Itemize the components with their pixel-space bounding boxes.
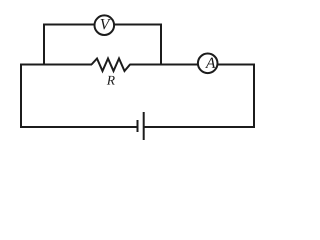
voltmeter U1 body bbox=[95, 15, 115, 35]
battery long plate bbox=[143, 112, 145, 140]
wire left side bbox=[20, 64, 22, 129]
ammeter label A bbox=[205, 58, 215, 68]
voltmeter label V bbox=[101, 19, 111, 29]
battery short plate bbox=[137, 120, 139, 132]
wire bottom-right segment bbox=[144, 126, 255, 128]
wire bottom-left segment bbox=[20, 126, 138, 128]
ammeter U2 body bbox=[198, 54, 218, 74]
resistor label R bbox=[107, 76, 115, 85]
wire voltmeter branch right riser bbox=[160, 24, 162, 66]
resistor R bbox=[92, 59, 131, 72]
wire top-left segment bbox=[20, 64, 92, 66]
wire right side bbox=[253, 64, 255, 129]
wire top-right segment bbox=[130, 64, 256, 66]
wire voltmeter branch left riser bbox=[43, 24, 45, 66]
wire voltmeter branch top bbox=[43, 24, 162, 26]
